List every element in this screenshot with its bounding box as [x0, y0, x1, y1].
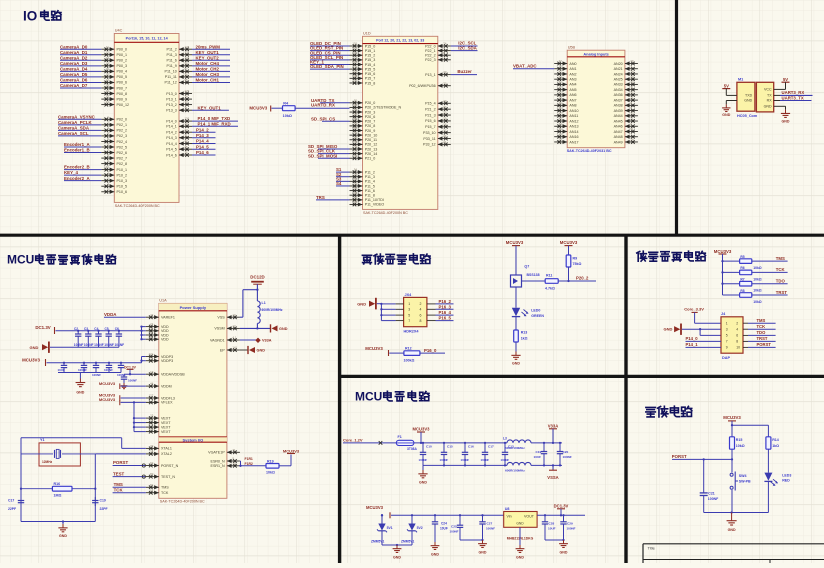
svg-text:AN20: AN20 [614, 62, 623, 66]
svg-text:RED: RED [782, 479, 790, 483]
svg-text:10kΩ: 10kΩ [753, 289, 762, 293]
svg-text:78: 78 [354, 145, 358, 149]
svg-text:L1: L1 [262, 301, 266, 305]
capacitors C10 C15 C16 C17 C13 100NF [419, 443, 514, 466]
ground flag at EP [248, 346, 265, 354]
svg-text:TX: TX [767, 94, 772, 98]
svg-text:Vin: Vin [507, 514, 512, 518]
svg-text:VDDP3: VDDP3 [161, 359, 173, 363]
svg-text:TMS: TMS [776, 256, 785, 261]
svg-text:92: 92 [354, 98, 358, 102]
svg-text:TCK: TCK [114, 487, 124, 492]
svg-text:MCU3V3: MCU3V3 [99, 397, 116, 402]
svg-text:MCU3V3: MCU3V3 [366, 505, 384, 510]
svg-text:U4C: U4C [115, 29, 123, 33]
svg-text:Encoder1_A: Encoder1_A [64, 142, 90, 147]
svg-text:104NF: 104NF [84, 343, 94, 347]
U1A left system pins [146, 444, 179, 495]
svg-text:UARTD_RX: UARTD_RX [311, 103, 335, 108]
svg-text:P20_0: P20_0 [365, 101, 376, 105]
U1D left pins P11 group [350, 168, 385, 207]
svg-text:UART3_RX: UART3_RX [782, 90, 805, 95]
svg-text:P00_2: P00_2 [117, 59, 128, 63]
svg-text:12MHz: 12MHz [42, 460, 53, 464]
svg-text:115: 115 [353, 46, 358, 50]
svg-text:CameraA_VSYNC: CameraA_VSYNC [58, 114, 96, 119]
svg-text:R6: R6 [740, 266, 744, 270]
svg-text:TDO: TDO [757, 330, 767, 335]
svg-text:18: 18 [106, 84, 110, 88]
title block frame [643, 544, 824, 563]
svg-text:P11_10/TDI: P11_10/TDI [365, 198, 384, 202]
svg-text:VAGND1: VAGND1 [210, 338, 225, 342]
svg-text:29: 29 [443, 117, 447, 121]
wire L1 to VSSM pin with junction [240, 323, 271, 329]
svg-text:21: 21 [185, 133, 189, 137]
svg-text:71: 71 [185, 106, 189, 110]
svg-text:P14_1: P14_1 [166, 125, 177, 129]
svg-text:SD_SPI_CS: SD_SPI_CS [311, 116, 335, 121]
LED3 RED [764, 473, 791, 513]
svg-text:S4: S4 [336, 181, 342, 186]
power flag MCU3V3 download [714, 249, 732, 261]
svg-text:100NF: 100NF [461, 458, 470, 462]
svg-text:100NF: 100NF [708, 497, 719, 501]
svg-text:P15_8: P15_8 [365, 81, 376, 85]
section divider vertical right of IO section [675, 0, 678, 235]
svg-text:ESR1_N: ESR1_N [211, 464, 226, 468]
svg-text:C10: C10 [426, 445, 432, 449]
svg-text:TXD: TXD [745, 94, 753, 98]
power flag DC1.3V left rail [35, 325, 54, 334]
svg-text:P16_2: P16_2 [439, 299, 452, 304]
U4C left pins P00_8-P00_12 [101, 89, 129, 107]
svg-text:TRST: TRST [757, 336, 768, 341]
net labels S1-S4 [336, 167, 350, 186]
svg-text:34: 34 [150, 450, 154, 454]
svg-text:AN48: AN48 [614, 135, 623, 139]
svg-text:VDD: VDD [161, 338, 169, 342]
svg-text:VDDA: VDDA [104, 312, 117, 317]
power flag DC1.3V small at VDDA/VDDSB [124, 365, 137, 374]
resistor R4 10k [283, 101, 296, 118]
resistor R13 1k [514, 317, 528, 342]
svg-text:43: 43 [559, 122, 563, 126]
net label UART3_RX [774, 90, 813, 95]
svg-text:5: 5 [726, 334, 728, 338]
svg-text:GND: GND [257, 349, 266, 353]
svg-text:100NF: 100NF [450, 529, 459, 533]
svg-text:VAREF1: VAREF1 [161, 316, 175, 320]
svg-text:26: 26 [559, 64, 563, 68]
wire ground rail below C bank [50, 346, 119, 348]
wire R19 to MCU3V3 [279, 455, 291, 466]
svg-text:129: 129 [185, 89, 190, 93]
svg-text:51: 51 [630, 127, 634, 131]
svg-text:AN36: AN36 [614, 93, 623, 97]
svg-text:XTAL1: XTAL1 [161, 447, 172, 451]
ground below zeners [393, 545, 402, 560]
svg-text:VOUT: VOUT [524, 514, 535, 518]
svg-text:112: 112 [353, 60, 358, 64]
wire EP to GND flag [240, 349, 248, 351]
svg-text:5V1: 5V1 [387, 526, 393, 530]
svg-text:75kΩ: 75kΩ [573, 262, 582, 266]
svg-text:100kΩ: 100kΩ [404, 358, 415, 362]
svg-text:Title: Title [648, 545, 656, 550]
resistor R9 75k [566, 255, 581, 267]
svg-text:AN5: AN5 [569, 88, 576, 92]
LED0 GREEN [512, 292, 545, 318]
svg-text:U1D: U1D [363, 31, 371, 35]
capacitor C11 100NF [121, 374, 137, 383]
svg-text:136: 136 [185, 117, 190, 121]
svg-text:P14_5: P14_5 [166, 148, 177, 152]
svg-text:100NF: 100NF [481, 458, 490, 462]
svg-text:135: 135 [185, 50, 190, 54]
svg-text:DC1.3V: DC1.3V [124, 365, 137, 369]
section divider vertical left of fault-indicator column [338, 235, 341, 563]
svg-text:10kΩ: 10kΩ [736, 444, 745, 448]
svg-text:P11_5: P11_5 [365, 184, 375, 188]
net labels Encoder2 and KEY_4 [64, 165, 101, 181]
svg-text:VDDFL3: VDDFL3 [161, 396, 175, 400]
svg-text:46: 46 [559, 106, 563, 110]
svg-text:87: 87 [150, 335, 154, 339]
svg-text:P22_3: P22_3 [425, 58, 436, 62]
svg-text:3: 3 [408, 308, 410, 312]
svg-text:P22_0: P22_0 [425, 44, 436, 48]
op-amp U1A body (Power Supply / System IO) [159, 299, 227, 504]
svg-text:74: 74 [443, 42, 447, 46]
U1D right pin P02_6/WKPU36 [409, 81, 451, 88]
inductor L4 600R/100MHz on VSS rail [505, 462, 531, 472]
svg-text:6: 6 [420, 313, 422, 317]
svg-text:C15: C15 [447, 445, 453, 449]
svg-text:25: 25 [185, 145, 189, 149]
svg-text:MCU3V3: MCU3V3 [249, 105, 267, 110]
svg-text:75: 75 [150, 356, 154, 360]
svg-text:Encoder2_B: Encoder2_B [64, 165, 90, 170]
svg-text:P11_6: P11_6 [167, 59, 177, 63]
svg-text:Motor_CH4: Motor_CH4 [196, 61, 220, 66]
svg-text:47: 47 [150, 313, 154, 317]
svg-text:P14_4: P14_4 [196, 139, 209, 144]
svg-text:AN33: AN33 [614, 83, 623, 87]
svg-text:1MΩ: 1MΩ [54, 494, 62, 498]
net labels I2C_SCL / I2C_SDA [451, 41, 478, 51]
svg-text:Core_3.3V: Core_3.3V [684, 306, 704, 311]
svg-text:134: 134 [185, 56, 190, 60]
svg-text:46: 46 [354, 195, 358, 199]
svg-text:R5: R5 [740, 255, 744, 259]
svg-text:37: 37 [443, 105, 447, 109]
svg-text:MCU: MCU [7, 253, 34, 267]
svg-text:107: 107 [352, 79, 357, 83]
wire R9 to node and label [569, 267, 597, 281]
svg-text:24: 24 [559, 138, 563, 142]
ground below C24 [431, 542, 440, 557]
svg-text:TMS: TMS [161, 486, 169, 490]
svg-text:DC1.3V: DC1.3V [35, 325, 50, 330]
svg-text:53: 53 [354, 172, 358, 176]
switch SW4 SW-PB [730, 459, 751, 512]
capacitor C28 10UF [542, 515, 556, 540]
svg-text:Encoder1_B: Encoder1_B [64, 148, 90, 153]
svg-text:51: 51 [150, 418, 154, 422]
svg-text:TCK: TCK [161, 491, 169, 495]
svg-text:P15_6: P15_6 [425, 119, 436, 123]
wire zener ground join [382, 544, 412, 546]
svg-text:58: 58 [185, 61, 189, 65]
svg-text:R13: R13 [521, 331, 528, 335]
svg-text:F1R2: F1R2 [245, 462, 253, 466]
capacitor C19 10UF [534, 443, 548, 466]
ground flag left of J4 [664, 324, 722, 336]
svg-text:91: 91 [150, 488, 154, 492]
svg-text:P11_6: P11_6 [365, 189, 375, 193]
svg-text:P13_3: P13_3 [166, 109, 177, 113]
svg-text:P15_7: P15_7 [365, 77, 376, 81]
ground below crystal loop [58, 520, 67, 538]
svg-text:22PF: 22PF [8, 507, 16, 511]
resistor R16 1M [21, 482, 95, 497]
svg-text:C6: C6 [115, 327, 119, 331]
svg-text:10: 10 [185, 122, 189, 126]
svg-text:100NF: 100NF [92, 373, 101, 377]
svg-text:P02_1: P02_1 [117, 123, 128, 127]
svg-text:CameraA_D5: CameraA_D5 [60, 72, 88, 77]
svg-text:GND: GND [512, 362, 520, 366]
svg-text:Motor_CH2: Motor_CH2 [196, 66, 220, 71]
transistor M1 module box B [756, 82, 773, 112]
svg-text:AN45: AN45 [614, 119, 623, 123]
svg-text:R12: R12 [405, 347, 412, 351]
svg-text:GND: GND [279, 327, 288, 331]
svg-text:Motor_CH3: Motor_CH3 [196, 72, 220, 77]
svg-text:24: 24 [630, 138, 634, 142]
svg-text:SW-PB: SW-PB [739, 479, 751, 483]
svg-text:4.7kΩ: 4.7kΩ [545, 287, 555, 291]
svg-text:4: 4 [420, 308, 422, 312]
svg-text:P22_1: P22_1 [425, 49, 436, 53]
svg-text:100NF: 100NF [567, 527, 576, 531]
svg-text:TRS: TRS [316, 195, 325, 200]
power flag MCU3V3 mid-left rail [22, 357, 45, 366]
svg-text:104NF: 104NF [74, 343, 84, 347]
svg-text:GND: GND [728, 528, 736, 532]
svg-text:P11_2: P11_2 [365, 170, 375, 174]
svg-text:P14_6: P14_6 [166, 153, 177, 157]
svg-text:PORST: PORST [757, 342, 772, 347]
svg-text:VDDM: VDDM [161, 384, 172, 388]
svg-text:CameraA_D2: CameraA_D2 [60, 55, 88, 60]
svg-text:P02_3: P02_3 [117, 134, 128, 138]
svg-text:MCU3V3: MCU3V3 [413, 427, 431, 432]
svg-text:GND: GND [479, 551, 487, 555]
svg-text:P15_5: P15_5 [365, 67, 376, 71]
power flag MCU3V3 above R9 [560, 240, 578, 255]
power flag MCU3V3 at R4 [249, 105, 270, 111]
power flag 5V left [722, 83, 730, 95]
net labels P14_0 MIF_TXD / P14_1 MIF_RXD [192, 116, 238, 126]
svg-text:GND: GND [357, 302, 366, 307]
net labels OLED pins and KEY_1 [310, 41, 350, 69]
capacitor C24 10UF [432, 515, 448, 542]
svg-text:20ms_PWM: 20ms_PWM [196, 44, 221, 49]
svg-text:DAP: DAP [722, 356, 730, 360]
svg-text:80: 80 [150, 472, 154, 476]
section title IO dianlu [23, 9, 61, 24]
svg-text:C17: C17 [488, 445, 494, 449]
svg-text:42: 42 [559, 70, 563, 74]
svg-text:AN37: AN37 [614, 98, 623, 102]
net label VDDA at VAREF1 [104, 312, 146, 317]
svg-text:SAK-TC264D-40F200N BC: SAK-TC264D-40F200N BC [115, 204, 160, 208]
capacitor C21 100NF [700, 459, 719, 512]
U4C left pins P10_1-P10_6 [101, 165, 127, 194]
svg-text:VSSM: VSSM [214, 327, 224, 331]
svg-text:6: 6 [736, 334, 738, 338]
ground flag left of C bank [30, 342, 49, 353]
connector JX4 HDR2X4 [396, 293, 436, 334]
svg-text:19: 19 [150, 370, 154, 374]
svg-text:3: 3 [726, 328, 728, 332]
svg-text:100NF: 100NF [117, 373, 126, 377]
svg-text:P11_3: P11_3 [365, 175, 375, 179]
svg-text:XTAL2: XTAL2 [161, 452, 172, 456]
svg-text:47: 47 [559, 85, 563, 89]
svg-text:P14_5: P14_5 [196, 144, 209, 149]
svg-text:P10_1: P10_1 [117, 168, 128, 172]
crystal Y1 12MHz [21, 438, 95, 466]
resistors R5-R8 10k with TMS/TCK/TDO/TRST labels [740, 255, 788, 270]
section title MCU power circuit [355, 390, 429, 404]
svg-text:C2: C2 [74, 327, 78, 331]
ground left of M1 [722, 104, 731, 117]
net labels motor/key outputs on U4C right [192, 44, 230, 82]
svg-text:U1A: U1A [159, 299, 167, 303]
svg-text:C4: C4 [94, 327, 98, 331]
svg-text:Motor_CH1: Motor_CH1 [196, 78, 220, 83]
svg-text:5V2: 5V2 [417, 526, 423, 530]
svg-text:HDR2X4: HDR2X4 [404, 330, 420, 334]
svg-text:52: 52 [354, 177, 358, 181]
svg-text:Analog Inputs: Analog Inputs [583, 52, 608, 56]
svg-text:23: 23 [106, 100, 110, 104]
svg-text:R14: R14 [772, 438, 779, 442]
svg-text:Port16, 15, 10, 11, 12, 14: Port16, 15, 10, 11, 12, 14 [126, 37, 169, 41]
U1D left pins P20 group [350, 98, 402, 160]
svg-text:P11_11: P11_11 [165, 75, 177, 79]
svg-text:9: 9 [726, 346, 728, 350]
svg-text:P14_2: P14_2 [196, 127, 209, 132]
svg-text:C25: C25 [451, 525, 457, 529]
svg-text:System I/O: System I/O [183, 437, 204, 442]
svg-text:P11_9: P11_9 [167, 64, 177, 68]
svg-text:76: 76 [354, 154, 358, 158]
svg-text:100NF: 100NF [486, 527, 495, 531]
svg-text:127: 127 [149, 394, 154, 398]
resistor R19 10k [266, 459, 279, 474]
svg-text:P21_0: P21_0 [365, 157, 376, 161]
svg-text:MCU3V3: MCU3V3 [365, 346, 383, 351]
svg-text:P20_10: P20_10 [365, 133, 378, 137]
svg-text:P20_2: P20_2 [576, 276, 589, 281]
svg-text:28: 28 [443, 122, 447, 126]
svg-text:P02_6: P02_6 [117, 151, 128, 155]
svg-text:114: 114 [353, 51, 358, 55]
svg-text:CameraA_D7: CameraA_D7 [60, 83, 88, 88]
U4C right pins P11 group [165, 45, 192, 85]
svg-text:128: 128 [185, 45, 190, 49]
svg-text:100NF: 100NF [440, 458, 449, 462]
power flag DC1.3V at U8 out [554, 503, 569, 515]
wire L3 to V33A junction [531, 442, 562, 444]
wire reset top rail [731, 424, 769, 426]
svg-text:SD_SPI_MOSI: SD_SPI_MOSI [308, 153, 337, 158]
svg-text:MCU3V3: MCU3V3 [22, 357, 40, 362]
U4C left pins P00_0-P00_7 [101, 45, 127, 90]
svg-text:21: 21 [630, 117, 634, 121]
svg-text:P20_13: P20_13 [365, 147, 378, 151]
svg-text:Port 12, 20, 21, 22, 13, 02, 3: Port 12, 20, 21, 22, 13, 02, 33 [376, 39, 424, 43]
svg-text:P02_7: P02_7 [117, 156, 128, 160]
svg-text:AN39: AN39 [614, 109, 623, 113]
svg-text:R19: R19 [267, 459, 274, 463]
svg-text:41: 41 [559, 90, 563, 94]
svg-text:DC12D: DC12D [250, 274, 264, 279]
svg-text:U8: U8 [505, 507, 510, 511]
svg-text:4: 4 [736, 328, 738, 332]
ground below U8 [516, 545, 525, 560]
svg-text:KEY_OUT2: KEY_OUT2 [196, 55, 220, 60]
svg-text:Buzzer: Buzzer [457, 69, 472, 74]
svg-text:10: 10 [736, 346, 740, 350]
svg-text:8: 8 [420, 319, 422, 323]
svg-text:CameraA_D6: CameraA_D6 [60, 78, 88, 83]
wire download pullup bus [721, 260, 739, 295]
svg-text:MCU3V3: MCU3V3 [283, 448, 300, 453]
crystal Y1 circuit wires [20, 438, 146, 522]
wire VCC to 5V [774, 88, 786, 90]
svg-text:P21_2: P21_2 [425, 107, 436, 111]
fuse F1 3T08A [396, 435, 417, 451]
svg-text:GND: GND [431, 553, 439, 557]
svg-text:P16_3: P16_3 [439, 304, 452, 309]
svg-text:P20_3: P20_3 [365, 110, 376, 114]
U5B right pins AN20-AN49 [614, 59, 638, 144]
inductor L1 600R/100MHz [257, 301, 283, 323]
svg-text:C3: C3 [84, 327, 88, 331]
svg-text:16: 16 [106, 73, 110, 77]
net labels J4 right TMS TCK TDO TRST PORST [743, 318, 776, 347]
svg-text:C20: C20 [563, 450, 569, 454]
svg-text:VEXT: VEXT [161, 416, 171, 420]
svg-text:141: 141 [232, 346, 237, 350]
svg-text:RX: RX [767, 99, 773, 103]
svg-text:AN24: AN24 [614, 72, 623, 76]
svg-text:48: 48 [354, 191, 358, 195]
svg-text:108: 108 [352, 74, 357, 78]
svg-text:100NF: 100NF [419, 458, 428, 462]
svg-text:TRST: TRST [776, 290, 788, 295]
svg-text:22PF: 22PF [100, 507, 108, 511]
svg-text:10kΩ: 10kΩ [753, 300, 762, 304]
svg-text:600R/100MHz: 600R/100MHz [505, 468, 525, 472]
svg-text:P16_5: P16_5 [439, 316, 452, 321]
svg-text:V33A: V33A [262, 339, 272, 343]
